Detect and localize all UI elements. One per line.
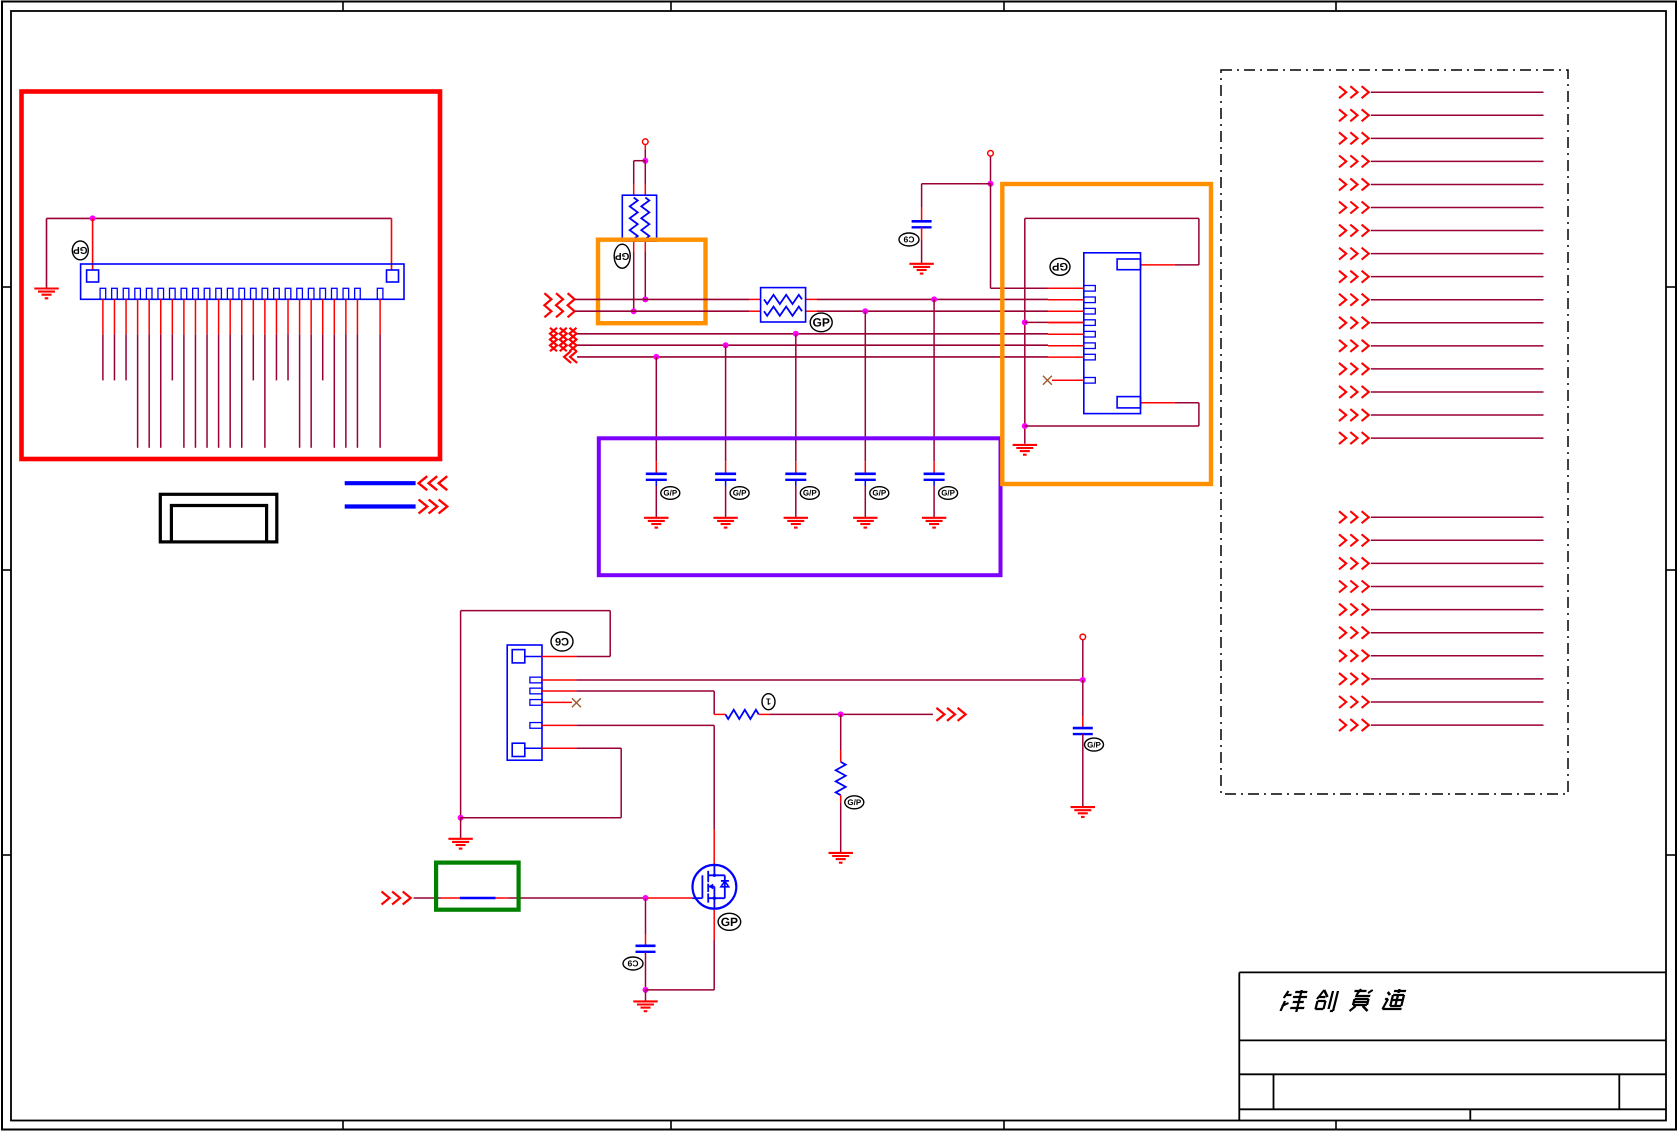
purple highlight box [599,438,1001,575]
label C6t [899,233,919,246]
wire VCC3 to cap C7 [1082,680,1084,728]
label GP R2 [845,796,864,809]
capacitor C6t [912,221,932,227]
wire CN2 top net [1025,218,1199,265]
junction VCC3 [1080,677,1086,683]
capacitor C5 [924,474,945,480]
wire C6 pin2 net [576,691,725,714]
wire cap 3 drop [795,334,797,474]
resistor pack RP2 series [761,288,806,322]
off-page signal B7 [1339,650,1544,662]
off-page signal A7 [1339,225,1544,237]
wire C8 to gnd [645,952,647,990]
off-page signal B4 [1339,581,1544,593]
wire RP1 pin B [644,161,646,196]
off-page signal B1 [1339,511,1544,523]
connector J5 pin wires [103,334,380,448]
connector CN2 body [1084,253,1141,414]
wire cap 3 to gnd [795,480,797,518]
ground C8 [633,1001,657,1011]
label GP Q1 [718,913,741,930]
wire R1 out [759,713,933,715]
off-page signal A5 [1339,178,1544,190]
junction bus line cap 5 [931,296,937,302]
capacitor C2 [715,474,736,480]
svg-text:GP: GP [1052,260,1068,272]
label GP C5 [939,487,958,500]
no-connect X CN2 pin8 [1043,376,1052,385]
ground C3 [784,518,808,528]
wire gnd stub C8 [645,990,647,1001]
svg-text:G/P: G/P [941,489,955,498]
fuse F1 link [460,897,496,899]
junction CN2 gnd [1022,423,1028,429]
wire C6 pin1 net [576,679,1082,681]
wire C6 pin3 NC [542,701,572,703]
arrows signal in gate [382,892,411,905]
wire C7 to gnd [1082,734,1084,807]
wire source net [646,909,715,990]
wire RP1 out B [644,241,646,299]
off-page signal A9 [1339,271,1544,283]
transistor Q1 MOSFET [692,865,736,909]
label GP C4 [870,487,889,500]
svg-text:GP: GP [73,244,88,255]
power symbol VCC1 [643,139,649,145]
junction CN2 pin4 [1022,319,1028,325]
label R1 [762,694,775,710]
junction bus line cap 2 [723,342,729,348]
off-page signal B8 [1339,673,1544,685]
bus line 5 wire [577,356,1048,358]
junction gate [643,895,649,901]
svg-text:1: 1 [766,697,771,707]
wire jog to RP1 pin A [634,161,646,196]
orange highlight box right [1002,184,1211,484]
wire cap 2 to gnd [725,480,727,518]
connector J5 24-pin body [81,264,404,299]
arrows bus line 5 output [564,351,577,363]
label C6 [551,632,573,651]
svg-text:G/P: G/P [733,489,747,498]
label GP C1 [661,487,680,500]
ground C2 [713,518,737,528]
label GP C3 [800,487,819,500]
off-page signal B3 [1339,557,1544,569]
junction bus line cap 1 [653,354,659,360]
capacitor C3 [785,474,806,480]
junction node power [642,158,648,164]
off-page signal A1 [1339,86,1544,98]
wire C6 pin4 net [576,725,714,864]
wire R2 to gnd [840,795,842,852]
power symbol VCC2 [988,151,994,157]
green highlight box [436,863,518,910]
bus line 4 wire [577,344,1048,346]
label GP CN2 [1050,258,1070,275]
capacitor C4 [855,474,876,480]
off-page signal A12 [1339,340,1544,352]
wire power stub [644,145,646,161]
wire C6 mount bottom net [461,748,622,818]
off-page signal B10 [1339,719,1544,731]
title text Wistron company name [1280,989,1406,1012]
arrows bus lines 3-4 input [550,328,577,351]
wire RP1 out A [633,241,635,311]
label GP connector J5 [72,241,88,260]
connector CN2 pin stubs [1048,288,1084,357]
off-page signal A8 [1339,248,1544,260]
off-page signal B5 [1339,604,1544,616]
svg-text:G/P: G/P [1087,740,1101,749]
capacitor C1 [646,474,667,480]
wire cap 2 drop [725,345,727,474]
arrows bus lines 1-2 input [544,293,574,317]
wire VCC2 down [990,156,992,184]
off-page signal B2 [1339,534,1544,546]
wire CN2 bottom net [1025,403,1199,426]
off-page signal A11 [1339,317,1544,329]
bus line 3 wire [577,333,1048,335]
wire C6t to gnd [921,227,923,263]
ground C6t [909,264,933,274]
junction R1 out [838,711,844,717]
wire gate in [414,897,460,899]
wire CN2 pin4 stub [1025,321,1084,323]
label GP C7 [1085,738,1104,751]
label GP C2 [730,487,749,500]
junction bus line cap 3 [793,331,799,337]
ground C7 [1071,807,1095,817]
label GP RP2 [810,313,832,332]
junction node [90,215,96,221]
ground CN2 [1013,445,1037,455]
wire CN2 gnd vertical [1024,218,1026,443]
svg-text:GP: GP [615,250,630,261]
wire cap 1 drop [655,357,657,474]
wire cap 4 to gnd [864,480,866,518]
bus stub lower blue [345,504,416,508]
wire to cap C6t [922,184,991,222]
arrows bus lower right-pointing [419,500,448,514]
svg-text:C9: C9 [627,959,638,969]
wire CN2 pin8 NC [1052,379,1084,381]
ground C1 [644,518,668,528]
label C8 [623,957,643,970]
capacitor C7 [1073,728,1093,734]
wire C6 pin stubs [542,680,576,725]
wire C6 mount stubs [542,657,576,749]
junction bus line cap 4 [862,308,868,314]
wire mount pin left [92,218,94,270]
wire R2 drop [840,714,842,762]
bus line 2 wire [575,310,1048,312]
wire VCC2 to pin1 [991,184,1049,289]
wire cap 4 drop [864,311,866,474]
ground C5 [922,518,946,528]
off-page signal A10 [1339,294,1544,306]
svg-text:C9: C9 [903,235,914,245]
dash-dot group box [1221,70,1568,794]
junction C6 gnd [458,815,464,821]
junction RP1 B bus [642,296,648,302]
off-page signal A3 [1339,132,1544,144]
ground GND1 [34,289,58,299]
svg-text:GP: GP [813,315,830,329]
connector C6 body [507,645,542,760]
svg-text:G/P: G/P [663,489,677,498]
wire cap 1 to gnd [655,480,657,518]
wire ground net vertical [46,218,48,288]
off-page signal A15 [1339,409,1544,421]
connector J5 pin stubs [103,299,380,334]
bus stub upper blue [345,481,416,485]
no-connect X C6 pin3 [572,698,581,707]
svg-text:G/P: G/P [847,798,861,807]
svg-text:GP: GP [721,915,738,929]
junction RP1 A bus [631,308,637,314]
resistor pack RP1 [622,195,656,241]
red highlight box [22,92,441,460]
off-page signal A14 [1339,386,1544,398]
arrows bus upper left-pointing [419,476,448,490]
wire gate cap drop [645,898,647,946]
black footprint outline outer [160,494,276,542]
power symbol VCC3 [1080,634,1086,640]
bus line 1 wire [575,298,1048,300]
label GP RP1 [614,244,630,268]
junction C8 gnd [643,987,649,993]
ground C4 [853,518,877,528]
arrows signal out [936,708,965,721]
ground R2 [829,853,853,863]
svg-text:G/P: G/P [872,489,886,498]
off-page signal A13 [1339,363,1544,375]
off-page signal A2 [1339,109,1544,121]
orange highlight box upper [598,240,706,324]
wire C6 mount top net [461,611,611,818]
wire C6 gnd stub [460,818,462,839]
wire ground net horizontal [47,217,392,219]
wire mount pin right [391,218,393,270]
resistor R1 series [725,710,758,719]
wire VCC3 down [1082,640,1084,680]
title block grid [1239,972,1666,1120]
resistor R2 pulldown [836,762,846,795]
ground C6 [448,839,472,849]
wire cap 5 drop [933,299,935,473]
off-page signal A6 [1339,202,1544,214]
off-page signal A4 [1339,155,1544,167]
off-page signal A16 [1339,432,1544,444]
capacitor C8 [636,946,656,952]
wire gate to Q1 [648,897,692,899]
off-page signal B9 [1339,696,1544,708]
junction node VCC2 [988,181,994,187]
black footprint outline inner [171,506,266,542]
svg-text:G/P: G/P [803,489,817,498]
off-page signal B6 [1339,627,1544,639]
svg-text:C6: C6 [555,635,569,647]
wire gate mid [496,897,646,899]
wire cap 5 to gnd [933,480,935,518]
